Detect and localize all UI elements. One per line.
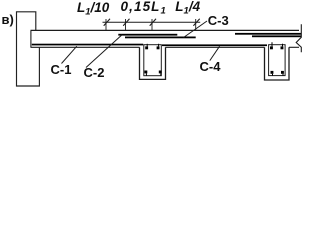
svg-text:0,15L1: 0,15L1 — [121, 0, 167, 17]
svg-text:в): в) — [2, 12, 14, 27]
leader C-1 — [62, 46, 77, 63]
dimension tick 2 — [123, 19, 129, 26]
top rebar C-2 — [118, 34, 177, 36]
slab bottom edge (right stub) — [289, 46, 299, 48]
svg-text:L1/10: L1/10 — [77, 0, 110, 17]
break line — [296, 24, 301, 52]
rib 1 rebar dots — [144, 46, 161, 73]
dimension tick 4 — [193, 19, 199, 26]
extension line 2 — [125, 19, 127, 30]
slab top edge — [31, 29, 300, 31]
dimension tick 3 — [150, 19, 156, 26]
leader C-3 — [184, 21, 208, 38]
top rebar C-3 — [125, 37, 196, 39]
slab left edge — [30, 30, 32, 47]
rib 1 outline — [140, 47, 166, 79]
extension line 4 — [195, 19, 197, 30]
slab bottom edge (span 2) — [166, 46, 265, 48]
svg-text:С-3: С-3 — [208, 13, 229, 28]
top rebar (right, lower) — [252, 35, 301, 37]
bottom rebar C-1 (span 1) — [32, 44, 143, 46]
rib 2 stirrup — [269, 45, 286, 76]
rib 2 outline — [265, 47, 290, 80]
wall (left support) — [17, 12, 40, 86]
bottom rebar (span 2) — [162, 44, 267, 46]
extension line 1 — [105, 19, 107, 30]
leader C-4 — [210, 46, 220, 60]
extension line 3 — [151, 19, 153, 30]
slab bottom edge (span 1) — [31, 46, 140, 48]
rib 2 rebar dots — [270, 46, 284, 73]
dimension line — [103, 21, 201, 23]
rib 1 stirrup — [144, 45, 162, 76]
rib 1 stirrup hook ticks — [146, 44, 160, 76]
svg-text:С-1: С-1 — [51, 62, 72, 77]
rib 2 stirrup hook ticks — [272, 42, 283, 75]
svg-text:С-2: С-2 — [84, 65, 105, 80]
svg-text:С-4: С-4 — [200, 59, 222, 74]
dimension tick 1 — [104, 19, 110, 26]
leader C-2 — [86, 35, 122, 68]
top rebar (right, upper) — [235, 33, 301, 35]
